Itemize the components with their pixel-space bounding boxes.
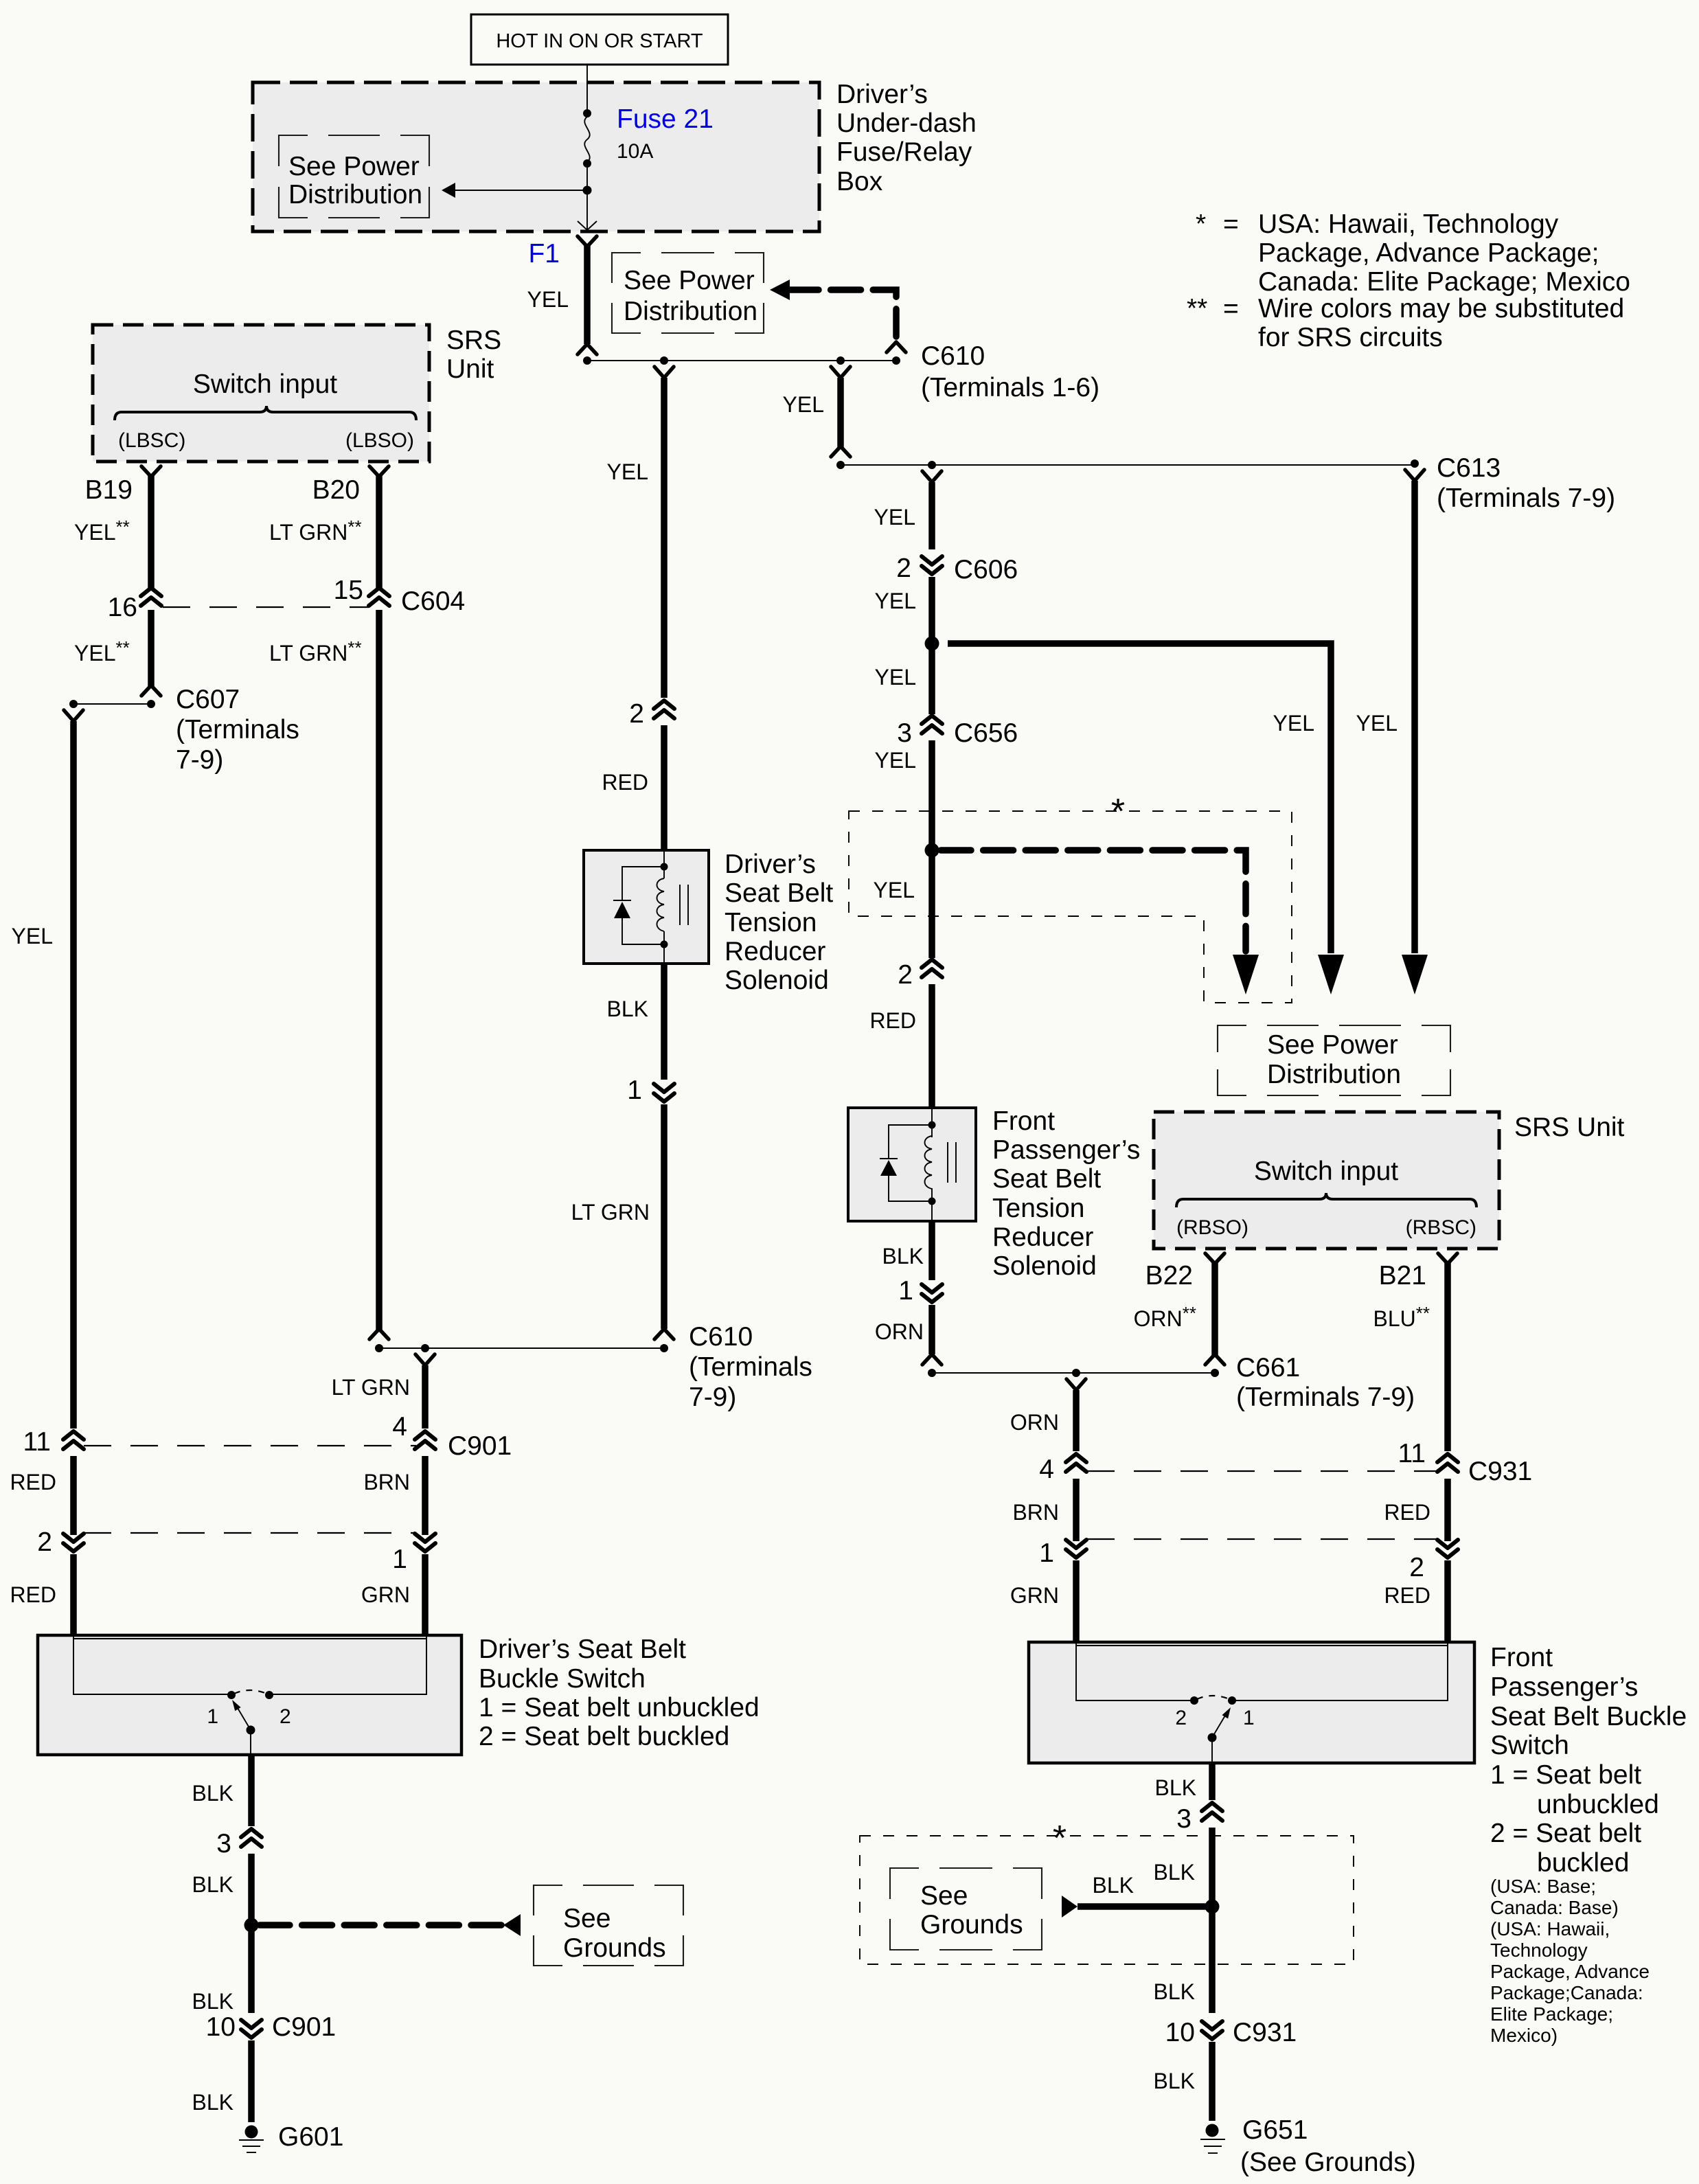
svg-text:C931: C931 (1233, 2018, 1297, 2047)
svg-text:HOT IN ON OR START: HOT IN ON OR START (496, 30, 703, 52)
svg-text:YEL: YEL (607, 459, 648, 484)
connector 3 chevrons driver (241, 1829, 262, 1847)
junction dot B22/bus (1211, 1369, 1219, 1377)
svg-text:YEL: YEL (874, 878, 915, 902)
fork below C661 bus (1067, 1379, 1086, 1390)
SRS Unit label (left) (446, 326, 501, 384)
fork onto C610 7-9 bus (654, 1329, 674, 1339)
C604 dashed connector link (163, 606, 369, 608)
wire YEL xJ upper (928, 482, 935, 549)
brace under Switch input (left) (115, 406, 416, 420)
passenger buckle switch package notes (1490, 1876, 1650, 2046)
passenger solenoid core bars (948, 1142, 956, 1183)
svg-text:Switch input: Switch input (1254, 1157, 1398, 1186)
svg-text:YEL: YEL (527, 287, 569, 312)
connector 2 chevrons driver-left (63, 1534, 84, 1551)
connector 15 C604 chevrons (369, 588, 389, 606)
wire YEL to heavy junction (928, 577, 935, 644)
svg-text:ORN: ORN (875, 1319, 924, 1344)
passenger switch dashed throw arc (1197, 1696, 1229, 1699)
passenger solenoid coil (925, 1136, 933, 1189)
legend note text (1187, 209, 1630, 352)
passenger switch position labels (1175, 1707, 1254, 1729)
svg-text:RED: RED (10, 1582, 56, 1607)
svg-text:(Terminals: (Terminals (689, 1352, 812, 1382)
junction dot bus1 to xH column (836, 356, 845, 365)
svg-text:15: 15 (334, 576, 363, 605)
wire YEL** B19 (148, 475, 155, 589)
svg-text:Distribution: Distribution (288, 180, 422, 209)
svg-text:C613: C613 (1437, 453, 1501, 483)
svg-text:USA: Hawaii, Technology: USA: Hawaii, Technology (1258, 209, 1559, 239)
wire GRN to passenger switch (1073, 1560, 1080, 1643)
connector 1 chevrons passenger solenoid (922, 1284, 942, 1302)
svg-text:C661: C661 (1236, 1353, 1300, 1383)
connector fork B20 (369, 466, 389, 477)
svg-text:BLK: BLK (607, 997, 648, 1021)
connector 3 chevrons passenger (1202, 1803, 1222, 1821)
svg-text:1 = Seat belt unbuckled: 1 = Seat belt unbuckled (479, 1693, 760, 1722)
svg-text:(LBSO): (LBSO) (345, 429, 414, 452)
connector 4 C931 chevrons (1066, 1454, 1086, 1472)
driver switch dashed throw arc (234, 1690, 266, 1694)
wire BLK below passenger switch (1209, 1763, 1216, 1800)
junction dot in fuse box (583, 186, 592, 195)
wire YEL below C656 (928, 740, 935, 850)
passenger switch internal circuit lines (1076, 1643, 1448, 1700)
See Power Distribution reference box 1 (279, 135, 429, 218)
svg-text:Reducer: Reducer (992, 1222, 1093, 1252)
svg-text:Solenoid: Solenoid (992, 1251, 1097, 1281)
wire BLK below driver switch (248, 1755, 255, 1826)
svg-text:unbuckled: unbuckled (1537, 1790, 1659, 1819)
svg-text:B20: B20 (312, 475, 360, 505)
svg-text:BLK: BLK (192, 1872, 233, 1897)
svg-text:Package;Canada:: Package;Canada: (1490, 1982, 1643, 2003)
svg-text:Front: Front (992, 1106, 1055, 1136)
wire ORN** B22 (1211, 1262, 1218, 1356)
connector 1 chevrons passenger-left (1066, 1540, 1086, 1558)
bus line C610 terminals 7-9 (379, 1347, 664, 1349)
fork below bus2 xJ (922, 471, 942, 482)
See Grounds reference box passenger (890, 1868, 1042, 1950)
svg-text:See: See (563, 1904, 611, 1933)
connector 10 C901 chevrons (241, 2020, 262, 2038)
svg-text:Box: Box (836, 167, 883, 196)
wire YEL** below C604 (148, 610, 155, 686)
wire BRN driver-right (422, 1456, 429, 1535)
heavy junction dot xJ (925, 637, 939, 651)
svg-text:Passenger’s: Passenger’s (992, 1135, 1140, 1165)
junction dot B19/C607 (147, 700, 155, 708)
svg-text:Package, Advance Package;: Package, Advance Package; (1258, 238, 1599, 268)
svg-text:BLK: BLK (1154, 2069, 1195, 2093)
junction dot F1/bus (583, 356, 591, 365)
svg-text:Under-dash: Under-dash (836, 109, 977, 138)
svg-text:Driver’s Seat Belt: Driver’s Seat Belt (479, 1635, 686, 1664)
svg-text:1: 1 (207, 1705, 218, 1728)
svg-text:GRN: GRN (361, 1582, 410, 1607)
svg-text:ORN: ORN (1010, 1410, 1059, 1435)
wire BLK to ground (248, 2040, 255, 2122)
svg-text:C610: C610 (921, 341, 985, 371)
C610 (Terminals 7-9) label (689, 1322, 812, 1412)
svg-text:Unit: Unit (446, 354, 494, 384)
connector 4 C901 chevrons (415, 1431, 435, 1449)
wire ORN passenger solenoid (928, 1305, 935, 1354)
driver switch position labels (207, 1705, 290, 1728)
svg-text:C901: C901 (272, 2012, 336, 2042)
driver switch internal circuit lines (73, 1637, 426, 1694)
fuse 21 element (583, 109, 591, 190)
wire RED driver-left (70, 1456, 77, 1535)
See Power Distribution reference box 2 (612, 253, 764, 333)
wire arrow to See Power Distribution (left) (442, 183, 587, 198)
connector 3 C656 chevrons (922, 716, 942, 733)
C613 label (1437, 453, 1615, 513)
svg-text:*: * (1053, 1819, 1067, 1858)
wire LT GRN** below C604 (376, 610, 383, 1330)
svg-text:GRN: GRN (1010, 1583, 1059, 1608)
driver switch arm with arrow (232, 1700, 251, 1730)
passenger buckle switch label (1490, 1643, 1687, 1878)
conditional star region box (lower) (860, 1836, 1354, 1964)
passenger solenoid label (992, 1106, 1140, 1281)
svg-text:(RBSO): (RBSO) (1176, 1216, 1248, 1239)
passenger switch common line to case bottom (1211, 1738, 1213, 1763)
ground junction dot passenger (1205, 1900, 1220, 1914)
svg-text:RED: RED (10, 1470, 56, 1494)
wire RED to buckle switch (70, 1554, 77, 1637)
heavy branch wire right and down with arrow (948, 644, 1344, 994)
wire LT GRN down to C610 7-9 bus (661, 1104, 668, 1329)
svg-text:C610: C610 (689, 1322, 753, 1352)
svg-text:2: 2 (898, 960, 913, 990)
junction dot left end C607 (69, 700, 78, 708)
svg-text:1: 1 (1243, 1707, 1255, 1729)
fork of dashed feed onto bus (887, 342, 906, 352)
svg-text:B19: B19 (85, 475, 133, 505)
svg-text:buckled: buckled (1537, 1848, 1629, 1878)
passenger switch arm with arrow (1212, 1707, 1231, 1738)
svg-text:*: * (1111, 792, 1125, 832)
svg-text:B21: B21 (1379, 1261, 1426, 1290)
svg-text:RED: RED (1384, 1583, 1430, 1608)
svg-text:YEL: YEL (874, 505, 915, 530)
svg-text:See Power: See Power (288, 152, 420, 181)
svg-text:C901: C901 (448, 1431, 512, 1461)
svg-text:(Terminals 7-9): (Terminals 7-9) (1236, 1383, 1415, 1412)
svg-text:Grounds: Grounds (563, 1933, 666, 1963)
svg-text:Tension: Tension (992, 1194, 1084, 1223)
junction dot xJ/C661 (928, 1369, 936, 1377)
solenoid coil (657, 878, 665, 931)
solenoid internal wire and dots (661, 852, 668, 962)
svg-text:=: = (1223, 294, 1239, 323)
wire RED to passenger solenoid (928, 984, 935, 1109)
svg-text:YEL: YEL (783, 392, 824, 417)
heavy junction dot xJ dashed branch (925, 843, 939, 858)
passenger switch contact 2 (1190, 1696, 1198, 1705)
ground symbol G601 (239, 2126, 264, 2153)
svg-text:See Power: See Power (1267, 1030, 1398, 1060)
bus line C661 terminals 7-9 (932, 1372, 1215, 1374)
wire with arrowhead down to F1 terminal (578, 190, 597, 230)
svg-text:4: 4 (1039, 1455, 1054, 1484)
connector 11 C931 chevrons (1437, 1454, 1458, 1472)
svg-text:BRN: BRN (363, 1470, 410, 1494)
svg-text:11: 11 (23, 1427, 52, 1457)
svg-text:(USA: Hawaii,: (USA: Hawaii, (1490, 1918, 1610, 1940)
svg-text:1 = Seat belt: 1 = Seat belt (1490, 1760, 1641, 1790)
connector 2 chevrons passenger-right (1437, 1540, 1458, 1558)
svg-text:RED: RED (602, 770, 648, 795)
svg-text:LT GRN: LT GRN (571, 1200, 650, 1225)
svg-text:10: 10 (206, 2012, 236, 2042)
C607 label (176, 685, 299, 775)
heavy dashed link to See Grounds (driver) (260, 1914, 521, 1936)
svg-text:2: 2 (629, 699, 644, 729)
svg-text:Switch input: Switch input (193, 369, 337, 399)
svg-text:BLK: BLK (1154, 1860, 1195, 1885)
connector 10 C931 chevrons (1202, 2021, 1222, 2039)
C931 dashed link lower (1087, 1538, 1437, 1540)
passenger seat belt buckle switch box (1029, 1642, 1474, 1763)
svg-text:7-9): 7-9) (176, 745, 223, 775)
connector fork at F1 (578, 236, 597, 247)
svg-text:RED: RED (1384, 1500, 1430, 1525)
svg-text:(USA: Base;: (USA: Base; (1490, 1876, 1596, 1897)
wire YEL xH short link (837, 378, 844, 448)
fork below C607 bus (64, 710, 83, 721)
svg-text:1: 1 (898, 1276, 913, 1306)
wire YEL xJ below junction (928, 644, 935, 714)
wire RED to passenger switch (1444, 1560, 1451, 1643)
svg-text:for SRS circuits: for SRS circuits (1258, 323, 1443, 352)
wire BRN passenger-left (1073, 1479, 1080, 1541)
connector 11 C901 chevrons (63, 1431, 84, 1449)
svg-text:3: 3 (216, 1829, 231, 1858)
connector 1 chevrons driver solenoid (654, 1084, 674, 1102)
svg-text:YEL: YEL (12, 924, 53, 948)
svg-text:(See Grounds): (See Grounds) (1240, 2148, 1416, 2177)
wire BLK to ground junction (248, 1854, 255, 1926)
svg-text:YEL: YEL (875, 748, 916, 773)
svg-text:10: 10 (1165, 2018, 1195, 2047)
wire LT GRN** B20 (376, 475, 383, 589)
svg-text:C606: C606 (954, 555, 1018, 584)
svg-text:Wire colors may be substituted: Wire colors may be substituted (1258, 294, 1624, 323)
driver switch pivot dot (247, 1726, 255, 1735)
svg-text:2: 2 (280, 1705, 291, 1728)
svg-text:Seat Belt: Seat Belt (992, 1164, 1101, 1194)
svg-text:16: 16 (108, 593, 137, 622)
svg-text:(Terminals 7-9): (Terminals 7-9) (1437, 484, 1615, 513)
fork onto C607 bus (141, 685, 161, 696)
connector 2 chevrons above passenger solenoid (922, 959, 942, 977)
passenger solenoid clamp diode (880, 1125, 932, 1201)
wire BLK below driver solenoid (661, 964, 668, 1080)
svg-text:YEL: YEL (1356, 711, 1398, 736)
junction dot passenger-left branch (1072, 1369, 1080, 1377)
svg-text:Switch: Switch (1490, 1731, 1569, 1760)
svg-text:C931: C931 (1468, 1457, 1532, 1486)
wire RED B21 (1444, 1479, 1451, 1541)
passenger switch pivot dot (1208, 1733, 1217, 1742)
svg-text:Driver’s: Driver’s (836, 80, 928, 109)
svg-text:Seat Belt: Seat Belt (725, 878, 833, 908)
wire RED center column (661, 725, 668, 852)
svg-text:Technology: Technology (1490, 1940, 1588, 1961)
svg-text:2: 2 (1409, 1553, 1424, 1582)
driver switch common line to case bottom (250, 1730, 251, 1755)
svg-text:BLK: BLK (882, 1244, 924, 1269)
heavy dashed branch to arrow (conditional) (941, 850, 1259, 994)
svg-text:Reducer: Reducer (725, 937, 825, 966)
connector 2 C606 chevrons (922, 556, 942, 574)
fork onto C610 bus (578, 344, 597, 354)
svg-text:RED: RED (869, 1008, 916, 1033)
svg-text:Distribution: Distribution (624, 297, 757, 326)
connector fork B22 (1205, 1253, 1224, 1264)
svg-text:C656: C656 (954, 718, 1018, 748)
svg-text:BLK: BLK (192, 1989, 233, 2014)
svg-text:BLK: BLK (1155, 1775, 1196, 1800)
bus line C607 terminals 7-9 (73, 703, 151, 705)
G651 label (1240, 2115, 1416, 2177)
See Power Distribution reference box 3 (1218, 1025, 1450, 1095)
wire BLK to ground passenger (1209, 2042, 1216, 2121)
driver seat belt tension reducer solenoid box (584, 850, 709, 964)
solenoid clamp diode (613, 867, 664, 944)
svg-text:4: 4 (392, 1412, 407, 1442)
heavy link to See Grounds (passenger) (1062, 1896, 1212, 1918)
connector 1 chevrons driver-right (415, 1534, 435, 1551)
ground junction dot driver (244, 1918, 259, 1933)
fork below bus1 xH (831, 367, 850, 378)
C613 wire fork and down arrow (1405, 459, 1424, 481)
svg-text:(Terminals: (Terminals (176, 715, 299, 744)
svg-text:2: 2 (1175, 1707, 1187, 1729)
svg-text:**: ** (1187, 294, 1207, 323)
svg-text:BLK: BLK (1154, 1979, 1195, 2004)
svg-text:YEL: YEL (875, 665, 916, 690)
fuse box label text (836, 80, 977, 196)
C931 dashed link upper (1087, 1470, 1437, 1472)
bus line C610 terminals 1-6 (587, 360, 896, 361)
svg-text:2 = Seat belt: 2 = Seat belt (1490, 1819, 1641, 1848)
svg-text:YEL: YEL (875, 589, 916, 613)
wire BLK below passenger solenoid (928, 1221, 935, 1280)
svg-text:G651: G651 (1242, 2115, 1308, 2145)
svg-text:B22: B22 (1145, 1261, 1193, 1290)
svg-text:Front: Front (1490, 1643, 1553, 1672)
svg-text:YEL: YEL (1273, 711, 1314, 736)
svg-text:BLK: BLK (192, 2090, 233, 2115)
solenoid core bars (680, 885, 688, 925)
svg-text:SRS: SRS (446, 326, 501, 355)
bus line C613 terminals 7-9 (841, 464, 1415, 466)
svg-text:*: * (1196, 209, 1206, 239)
wire YEL center column (661, 378, 668, 698)
junction dot xJ bus2 (928, 461, 936, 469)
junction dot driver-right branch (421, 1344, 429, 1352)
junction dot xH bus2 (836, 461, 845, 469)
wire GRN to buckle switch (422, 1554, 429, 1637)
svg-text:See Power: See Power (624, 266, 755, 295)
ground symbol G651 (1200, 2124, 1225, 2154)
svg-text:SRS Unit: SRS Unit (1514, 1113, 1625, 1142)
svg-text:3: 3 (1176, 1804, 1191, 1834)
C901 dashed link upper (84, 1445, 416, 1446)
svg-text:G601: G601 (278, 2122, 343, 2152)
svg-text:10A: 10A (617, 140, 653, 163)
fuse box (Driver's Under-dash Fuse/Relay Box) (253, 82, 819, 231)
driver buckle switch label (479, 1635, 760, 1751)
svg-text:Package, Advance: Package, Advance (1490, 1961, 1650, 1982)
brace under Switch input (right) (1176, 1193, 1476, 1207)
svg-text:F1: F1 (528, 239, 560, 269)
passenger solenoid internal wire and dots (928, 1109, 936, 1220)
conditional star region box (upper) (849, 811, 1292, 1003)
fork below bus to center column (654, 367, 674, 378)
svg-text:Driver’s: Driver’s (725, 850, 816, 879)
svg-text:Distribution: Distribution (1267, 1060, 1401, 1089)
svg-text:Fuse 21: Fuse 21 (617, 104, 714, 134)
C901 dashed link lower (84, 1532, 416, 1534)
svg-text:Fuse/Relay: Fuse/Relay (836, 137, 972, 167)
junction dot B20/bus (375, 1344, 383, 1352)
wire BLU** B21 (1444, 1262, 1451, 1451)
svg-text:3: 3 (897, 718, 912, 748)
fork onto bus2 xH (831, 446, 850, 457)
connector fork B21 (1438, 1253, 1457, 1264)
driver solenoid label (725, 850, 833, 995)
wire BLK to passenger ground junction (1209, 1828, 1216, 2013)
passenger seat belt tension reducer solenoid box (848, 1108, 976, 1221)
wire LT GRN driver-right (422, 1365, 429, 1429)
svg-text:7-9): 7-9) (689, 1383, 736, 1412)
junction dot center tap (660, 356, 668, 365)
svg-text:Mexico): Mexico) (1490, 2025, 1558, 2046)
svg-text:Grounds: Grounds (920, 1910, 1023, 1940)
See Grounds reference box driver (534, 1885, 683, 1966)
svg-text:Buckle Switch: Buckle Switch (479, 1664, 646, 1694)
svg-text:Passenger’s: Passenger’s (1490, 1672, 1638, 1702)
svg-text:BRN: BRN (1012, 1500, 1059, 1525)
driver switch contact 1 (227, 1691, 236, 1699)
svg-text:Seat Belt Buckle: Seat Belt Buckle (1490, 1702, 1687, 1731)
wire ORN passenger-left (1073, 1390, 1080, 1451)
connector 2 C610 chevrons (654, 701, 674, 718)
fork below bus driver-right (415, 1354, 435, 1365)
fork B20 onto C610 7-9 bus (369, 1329, 389, 1339)
svg-text:11: 11 (1398, 1439, 1426, 1468)
wire YEL driver-left long run (70, 721, 77, 1429)
svg-text:=: = (1223, 209, 1239, 239)
svg-text:1: 1 (1039, 1538, 1054, 1568)
svg-text:2 = Seat belt buckled: 2 = Seat belt buckled (479, 1722, 729, 1751)
svg-text:(RBSC): (RBSC) (1406, 1216, 1476, 1239)
junction dot (660, 1344, 668, 1352)
svg-text:(Terminals 1-6): (Terminals 1-6) (921, 373, 1099, 402)
junction dot dashed feed (892, 356, 900, 365)
svg-text:BLK: BLK (1093, 1873, 1134, 1898)
svg-text:Canada: Elite Package; Mexico: Canada: Elite Package; Mexico (1258, 267, 1630, 297)
svg-text:LT GRN: LT GRN (332, 1375, 410, 1400)
svg-text:Elite Package;: Elite Package; (1490, 2003, 1613, 2025)
svg-text:2: 2 (37, 1527, 52, 1557)
